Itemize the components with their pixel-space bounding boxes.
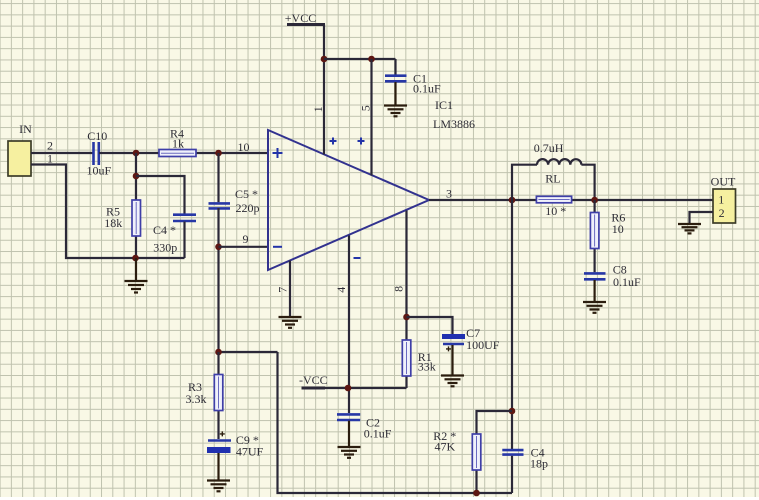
svg-text:1k: 1k [172,137,184,151]
svg-text:OUT: OUT [711,175,736,189]
svg-text:IN: IN [19,122,32,136]
svg-text:C5 *: C5 * [235,187,258,201]
wire R6 branch down [593,200,595,272]
capacitor C2 [337,414,392,440]
svg-text:10uF: 10uF [86,164,111,178]
junction node pin8/C7 [403,314,410,321]
wire C2 to ground [348,421,350,447]
junction node R2/C4 top [509,408,516,415]
wire output pin 3 run [429,199,713,201]
wire pin 9 to op-amp [219,246,269,248]
resistor R6 [590,211,625,249]
wire C1 to ground [394,82,396,105]
junction node output/zobel left [509,197,516,204]
svg-text:0.1uF: 0.1uF [413,82,441,96]
wire OUT pin2 to ground [690,212,714,223]
wire C4 bottom to rail [511,456,513,493]
resistor R4 [159,127,196,157]
resistor R3 [186,375,223,411]
wire C5 bottom to pin9 and feedback node [217,208,219,353]
svg-text:4: 4 [334,287,348,293]
junction node R3 top [215,349,222,356]
junction node R5/C4 top [133,173,140,180]
svg-text:8: 8 [391,286,405,292]
junction node pin4/-VCC [345,385,352,392]
ground below C7 [441,376,464,387]
capacitor C8 [584,263,641,289]
svg-text:IC1: IC1 [435,98,453,112]
wire R3 chain vertical [217,352,219,439]
op-amp U1 LM3886 triangle [268,130,429,270]
wire C10 to R4 [99,152,268,154]
bottom white edge [0,497,759,500]
svg-text:1: 1 [311,106,325,112]
minus mark pin4 supply [354,257,361,259]
svg-text:9: 9 [243,232,249,246]
wire -VCC to R1 bottom [325,387,407,389]
ground below pin 7 [279,317,302,328]
ground below OUT pin2 [678,224,701,233]
capacitor C10 [86,129,111,178]
ground below C8 [583,302,606,313]
wire C8 to ground [593,280,595,302]
capacitor C1 [385,72,441,96]
ground below C1 [384,106,407,117]
svg-text:100UF: 100UF [466,338,500,352]
svg-text:0.1uF: 0.1uF [613,275,641,289]
capacitor C4 330p [153,215,196,255]
svg-text:18p: 18p [530,457,548,471]
inductor L1 0.7uH [534,141,582,165]
svg-text:2: 2 [719,206,725,220]
resistor R2 [433,429,481,470]
wire IN pin2 to C10 [31,152,93,154]
svg-text:33k: 33k [418,360,436,374]
wire branch to C4 [136,176,185,214]
plus mark pin5 supply [358,138,365,145]
svg-text:47UF: 47UF [236,445,264,459]
junction node bottom rail [132,255,139,262]
svg-text:3: 3 [446,187,452,201]
wire VCC rail to C1 [324,58,396,60]
wire pin 7 down [289,261,291,318]
wire inductor loop [512,165,537,200]
power +VCC symbol [285,11,325,25]
wire C9 to ground [217,453,219,481]
wire pin8 node to C7 [407,317,453,334]
svg-text:+VCC: +VCC [285,11,316,25]
wire feedback down to bottom rail [278,352,513,493]
wire C7 to ground [451,345,453,376]
svg-text:5: 5 [358,105,372,111]
junction node VCC rail at pin1 [321,56,328,63]
svg-text:2: 2 [47,139,53,153]
wire feedback vertical from output node [511,200,513,450]
wire R2 branch [477,411,513,493]
plus mark noninverting input [273,148,283,158]
resistor RL [536,172,571,219]
svg-text:C4 *: C4 * [153,223,176,237]
svg-text:7: 7 [275,287,289,293]
junction node at C10/R5 [133,150,140,157]
svg-text:0.1uF: 0.1uF [364,427,392,441]
minus mark inverting input [273,246,282,248]
wire feedback node to R3 branch [219,351,278,353]
svg-text:330p: 330p [153,241,177,255]
wire pin 5 down [370,59,372,176]
wire VCC rail down to C1 top [394,59,396,75]
junction node R4/C5 [215,150,222,157]
ground below R5 rail [125,258,148,293]
capacitor C9 electrolytic [207,431,264,458]
plus mark pin1 supply [330,138,337,145]
capacitor C7 electrolytic [442,326,500,352]
connector J1 IN [8,122,32,176]
svg-text:1: 1 [718,192,724,206]
svg-text:18k: 18k [104,216,122,230]
resistor R5 [104,200,140,236]
ground below C9 [207,481,230,492]
power -VCC symbol [299,373,328,388]
junction node pin 9 [215,244,222,251]
capacitor C5 220p [209,187,260,215]
svg-text:3.3k: 3.3k [186,392,207,406]
svg-text:C10: C10 [87,129,107,143]
wire +VCC down to pin 1 [323,25,325,155]
resistor R1 [402,340,436,376]
svg-text:10: 10 [238,140,250,154]
wire inductor right side down [581,165,594,200]
ground below C2 [338,447,361,458]
svg-text:10 *: 10 * [545,204,566,218]
svg-text:220p: 220p [236,201,260,215]
junction node R2 bottom rail [473,490,480,497]
wire IN pin1 down-around to ground rail [31,165,185,259]
capacitor C4 18p [502,446,548,471]
wire pin 8 down to R1 [405,211,407,389]
wire C4 bottom to rail [183,222,185,259]
wire pin 4 down through -VCC to C2 [348,236,350,414]
junction node VCC rail at pin5 [368,56,375,63]
svg-text:47K: 47K [434,440,455,454]
wire node down to R5 branch [135,153,137,258]
connector J2 OUT [711,175,736,224]
junction node zobel right [591,197,598,204]
svg-text:0.7uH: 0.7uH [534,141,564,155]
wire C5 vertical run [217,153,219,202]
svg-text:-VCC: -VCC [299,373,328,387]
svg-text:10: 10 [612,222,624,236]
svg-text:LM3886: LM3886 [433,117,475,131]
svg-text:RL: RL [545,172,560,186]
